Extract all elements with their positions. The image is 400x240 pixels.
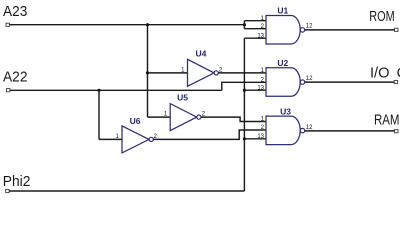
wire U4 input bbox=[148, 72, 188, 74]
wire U6 output with jog up to U3 pin2 bbox=[153, 130, 266, 139]
svg-text:13: 13 bbox=[257, 85, 264, 91]
svg-text:U5: U5 bbox=[177, 92, 188, 102]
wire U3 output bbox=[305, 130, 395, 132]
svg-text:13: 13 bbox=[257, 134, 264, 140]
inverter U5 bbox=[170, 104, 201, 131]
wire U2 pin13 bbox=[244, 89, 266, 91]
wire A23 horizontal bbox=[9, 24, 244, 26]
svg-text:RAM: RAM bbox=[374, 113, 400, 129]
port A22 bbox=[7, 89, 10, 92]
port ROM bbox=[395, 28, 398, 31]
node U4 input junction bbox=[146, 71, 149, 74]
svg-text:Phi2: Phi2 bbox=[3, 174, 31, 190]
wire Phi2 vertical bbox=[243, 38, 245, 191]
svg-text:A22: A22 bbox=[3, 70, 28, 86]
node A22 branch junction bbox=[97, 89, 100, 92]
node Phi2 junction at U3 pin13 bbox=[243, 137, 246, 140]
svg-text:U6: U6 bbox=[130, 116, 141, 126]
wire A22 vertical branch to U6 bbox=[98, 90, 100, 139]
inverter U4 bbox=[188, 59, 219, 86]
nand gate U1 bbox=[266, 16, 305, 45]
wire A22 jog up to U2 pin2 bbox=[222, 82, 266, 90]
svg-text:U3: U3 bbox=[280, 106, 291, 116]
svg-text:12: 12 bbox=[306, 76, 313, 82]
wire A23 vertical branch to U4/U5 bbox=[147, 25, 149, 117]
inverter U6 bbox=[122, 126, 153, 153]
wire U1 output bbox=[305, 29, 395, 31]
wire U1 pin1 bbox=[244, 20, 266, 22]
node Phi2 junction at U2 pin13 bbox=[243, 89, 246, 92]
node A23 fork junction at U1 bbox=[243, 23, 246, 26]
svg-text:ROM: ROM bbox=[369, 9, 394, 25]
wire U5 input bbox=[148, 116, 171, 118]
node A23 branch junction bbox=[146, 23, 149, 26]
port A23 bbox=[6, 23, 9, 26]
svg-text:U1: U1 bbox=[277, 6, 288, 16]
svg-text:U4: U4 bbox=[195, 49, 206, 59]
svg-text:I/O: I/O bbox=[370, 66, 390, 82]
nand gate U2 bbox=[266, 68, 305, 97]
wire U4 output to U2 pin1 bbox=[218, 72, 266, 74]
wire U1 pin13 bbox=[244, 37, 266, 39]
wire Phi2 horizontal bbox=[9, 190, 244, 192]
nand gate U3 bbox=[266, 116, 305, 145]
svg-text:U2: U2 bbox=[277, 58, 288, 68]
svg-text:A23: A23 bbox=[3, 4, 27, 20]
wire A22 horizontal bbox=[10, 89, 222, 91]
wire U3 pin13 bbox=[244, 138, 266, 140]
wire U6 input bbox=[99, 138, 122, 140]
port RAM bbox=[395, 130, 398, 133]
svg-text:C: C bbox=[397, 66, 400, 82]
wire U1 pin2 bbox=[244, 28, 266, 30]
wire U5 output with jog down to U3 pin1 bbox=[201, 117, 266, 121]
port IO bbox=[394, 80, 397, 83]
svg-text:12: 12 bbox=[306, 125, 313, 131]
wire A23 fork vertical bbox=[243, 21, 245, 29]
svg-text:13: 13 bbox=[257, 33, 264, 39]
port Phi2 bbox=[6, 189, 9, 192]
wire U2 output bbox=[305, 81, 395, 83]
svg-text:12: 12 bbox=[306, 24, 313, 30]
